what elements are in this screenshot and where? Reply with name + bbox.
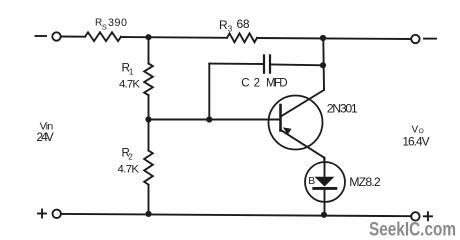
svg-text:4.7K: 4.7K — [118, 164, 140, 176]
svg-text:2N301: 2N301 — [327, 101, 358, 115]
svg-text:24V: 24V — [36, 130, 53, 144]
svg-text:B: B — [308, 176, 315, 187]
svg-text:2: 2 — [128, 153, 133, 162]
svg-text:1: 1 — [129, 67, 134, 76]
svg-text:68: 68 — [237, 17, 250, 31]
svg-text:390: 390 — [108, 17, 127, 29]
svg-text:MZ8.2: MZ8.2 — [349, 175, 381, 189]
svg-text:MFD: MFD — [266, 77, 288, 89]
svg-text:16.4V: 16.4V — [402, 134, 429, 148]
svg-text:R: R — [219, 18, 228, 32]
svg-text:C: C — [241, 77, 249, 89]
svg-text:2: 2 — [254, 77, 260, 89]
svg-text:4.7K: 4.7K — [119, 79, 140, 91]
svg-text:3: 3 — [228, 25, 233, 34]
svg-text:SeekIC.com: SeekIC.com — [369, 220, 456, 240]
svg-text:S: S — [102, 23, 107, 32]
